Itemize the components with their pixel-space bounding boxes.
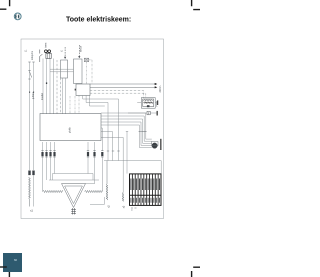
tank top line (53, 174, 94, 181)
wire board-right 2 (101, 116, 152, 141)
B1 pins to board (63, 78, 66, 114)
control board U1 (40, 114, 101, 141)
trim mark top-right (192, 0, 200, 10)
terminal table cell text bottom row (131, 198, 160, 203)
wire pump left (137, 101, 157, 103)
wire below board x94.5 (94, 142, 96, 166)
right element box (90, 197, 104, 205)
wire N (left feed) (33, 62, 35, 170)
wire below board x50.5 (50, 142, 52, 166)
thermostat contact circle b (48, 50, 51, 53)
heater element E3 (x123) (122, 193, 124, 202)
trim mark bottom-right (192, 267, 200, 277)
terminal table frame (130, 174, 162, 206)
wire bundle K1 out 3 (90, 96, 105, 107)
marks below terminal table (131, 208, 137, 210)
heater element E1 (left vertical zigzag) (29, 177, 31, 207)
ground below triangle (71, 208, 76, 215)
wire board-right 4 (101, 122, 152, 145)
dash-dot wire to pump b (0, 93, 82, 96)
switch S1 (39, 50, 42, 63)
wire board-right 3 (101, 119, 152, 143)
breaker on L feed (28, 71, 31, 80)
svg-text:x1: x1 (30, 209, 33, 213)
dot marks on feeds (29, 92, 30, 93)
small comp X1 (84, 58, 88, 61)
svg-text:Toote elektriskeem:: Toote elektriskeem: (66, 17, 131, 24)
svg-text:x2: x2 (108, 205, 111, 208)
svg-text:60: 60 (14, 258, 18, 262)
terminator bar F1 (157, 111, 158, 116)
wires into tank from left group (43, 166, 55, 192)
terminal table mid bar (130, 194, 162, 196)
pump terminal bar (157, 100, 158, 105)
heater element E2 (x107) (106, 161, 108, 200)
wire board-right low 3 (101, 137, 123, 192)
relay K1 (76, 84, 90, 96)
pump blob (147, 105, 150, 107)
pump M1 inner (143, 99, 154, 107)
wire below board x46.5 (46, 142, 48, 166)
wire 230V out a (90, 83, 156, 85)
dash-dot wire to pump a (90, 91, 144, 98)
thermostat contact circle a (45, 50, 48, 53)
tank second line (49, 179, 99, 181)
wire L (left feed) (29, 62, 31, 170)
wire below board x88 (87, 142, 89, 166)
lamp H1 (152, 143, 157, 148)
plug ticks on feeds (28, 61, 34, 63)
triangle outer (62, 184, 86, 208)
pump coil (144, 100, 153, 101)
svg-text:toitejuhe: toitejuhe (31, 50, 34, 60)
long wire to terminal table (104, 161, 161, 174)
svg-text:L1: L1 (25, 49, 27, 52)
schematic frame (21, 39, 164, 219)
terminal table cell text top row (131, 179, 160, 191)
wire below board x42.5 (42, 142, 44, 166)
wire board-right 5 (101, 125, 152, 148)
wire board-right low 2 (101, 132, 113, 161)
page number block (3, 253, 22, 272)
terminator bar H1 (160, 139, 161, 150)
trim mark bottom-left (8, 271, 10, 277)
svg-text:term: term (44, 43, 47, 48)
wire E3 companion (126, 131, 128, 174)
trim mark bottom-left horizontal (0, 266, 7, 268)
wire board-right low 1 (101, 128, 102, 192)
wire bundle K1 out 2 (86, 96, 108, 161)
link wires between boxes (50, 69, 74, 72)
connector blobs on left feeds (28, 171, 30, 176)
wire 230V out b (90, 86, 156, 88)
svg-text:kaabel: kaabel (41, 92, 44, 100)
dash-dot pins above board (70, 96, 79, 115)
sensor arrow 2 (78, 45, 80, 56)
wire bundle K1 out 1 (83, 96, 119, 161)
svg-text:plokk: plokk (69, 126, 72, 133)
sensor arrow 1 (64, 47, 66, 57)
heater zigzag left (43, 190, 63, 192)
thermostat box T1 (46, 53, 51, 58)
pump M1 outer (141, 98, 155, 109)
svg-text:x3: x3 (123, 205, 126, 208)
wires cluster to board (43, 59, 54, 115)
EE language badge (14, 13, 21, 20)
box B1 (61, 60, 68, 78)
aux fuse F1 (147, 111, 150, 115)
box B2 (74, 59, 83, 84)
trim mark top-left (0, 0, 10, 9)
bundle ticks (139, 130, 147, 132)
pump zigzag (143, 102, 153, 104)
wire below board x54.5 (54, 142, 56, 166)
heater zigzag right (84, 190, 102, 192)
dash-dot vertical into K1 (86, 62, 88, 84)
triangle inner (65, 186, 83, 204)
svg-text:andur: andur (80, 46, 83, 52)
svg-text:t1: t1 (60, 49, 63, 52)
wire board-right 1 (101, 113, 152, 139)
dash-dot wire to board (57, 60, 61, 114)
wire to F1 (128, 112, 157, 114)
ticks on descenders (107, 150, 120, 152)
terminal table verticals (132, 174, 158, 205)
svg-text:230V~: 230V~ (158, 84, 162, 92)
svg-text:juhtme: juhtme (32, 91, 35, 100)
wire from N feed down (33, 175, 35, 206)
wires into tank from right group (86, 166, 95, 184)
